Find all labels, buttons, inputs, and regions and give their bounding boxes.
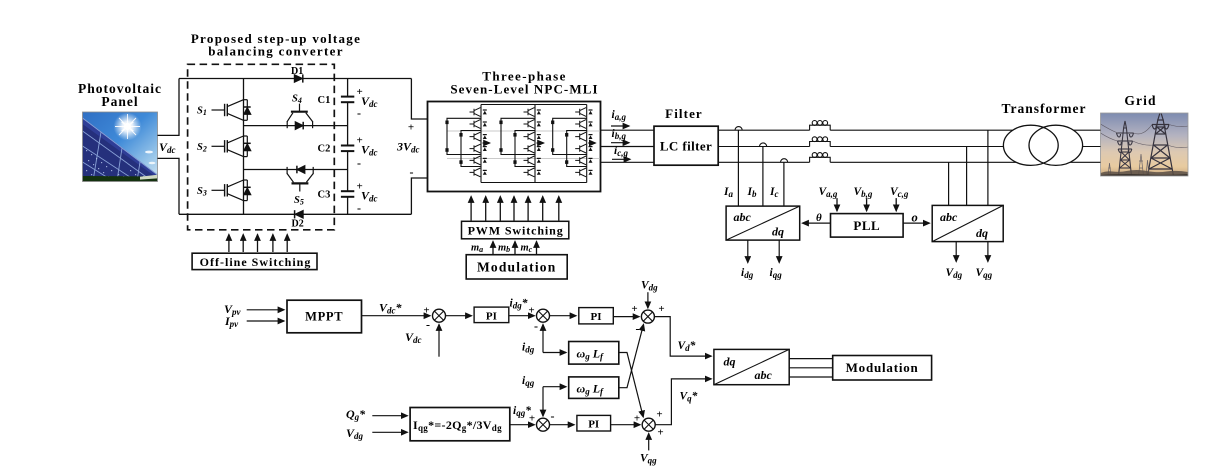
power cables [1101, 124, 1189, 148]
NPC-MLI leg C [551, 105, 595, 183]
svg-text:dq: dq [772, 225, 784, 239]
box abc/dq current [726, 206, 800, 240]
transistor S4 [287, 104, 312, 130]
svg-text:+: + [634, 413, 640, 425]
svg-text:-: - [357, 156, 361, 170]
arrow ic,g [612, 158, 630, 160]
wire top bus [179, 78, 411, 80]
svg-text:+: + [528, 305, 534, 317]
wire PV to converter (bottom) [158, 158, 180, 214]
NPC internal light bus lines [447, 130, 600, 132]
wire sum3 to Vd* to dq box [654, 317, 711, 357]
svg-text:PWM Switching: PWM Switching [468, 224, 564, 238]
wire idg tee [543, 352, 566, 354]
inductor phase b [810, 137, 831, 147]
capacitor C2 [341, 146, 354, 152]
svg-text:o: o [912, 211, 918, 225]
right tower [1148, 114, 1174, 177]
svg-text:+: + [656, 409, 662, 421]
svg-text:dq: dq [724, 355, 736, 369]
svg-text:ma: ma [471, 243, 483, 255]
svg-text:MPPT: MPPT [305, 310, 343, 324]
svg-text:S4: S4 [292, 94, 302, 106]
svg-text:Modulation: Modulation [846, 360, 919, 375]
box wL2 [569, 377, 619, 399]
photo border [83, 112, 158, 182]
summing junction sum2 [537, 309, 550, 322]
summing junction sum3 [641, 310, 654, 323]
box PI1 [474, 307, 509, 323]
NPC-MLI leg A [445, 105, 489, 183]
transformer [1003, 125, 1058, 165]
box PWM Switching [462, 221, 569, 239]
current sensor hump a [735, 127, 742, 131]
arrow Vqg into sum4 [648, 434, 650, 451]
svg-text:Grid: Grid [1124, 93, 1156, 108]
svg-text:+: + [529, 413, 535, 425]
box PI2 [579, 308, 614, 324]
svg-text:S3: S3 [197, 186, 207, 198]
wire capacitor rail [347, 79, 349, 215]
wire sum4 to Vq* to dq box [655, 379, 712, 425]
wire MPPT to sum1 [362, 315, 431, 317]
box LC filter [654, 126, 718, 165]
box Off-line Switching [192, 253, 317, 269]
arrow ia,g [611, 125, 629, 127]
svg-text:+: + [657, 427, 663, 439]
tap Ic [783, 162, 785, 206]
three-phase line c [718, 161, 1100, 163]
NPC internal bottom bus [481, 182, 587, 184]
wire PI2 to sum3 [613, 316, 639, 318]
svg-text:D1: D1 [291, 66, 303, 77]
svg-text:mc: mc [521, 243, 533, 255]
current sensor hump b [760, 143, 767, 147]
NPC internal top bus [481, 104, 587, 106]
svg-text:+: + [658, 303, 664, 315]
transistor S3 [212, 180, 251, 201]
cross wire wL1 to sum4 [619, 353, 643, 417]
svg-text:mb: mb [498, 243, 510, 255]
svg-text:-: - [357, 106, 361, 120]
cross wire wL2 to sum3 [619, 325, 644, 388]
box abc/dq voltage [932, 205, 1003, 241]
distant towers [1108, 154, 1149, 176]
box NPC-MLI [428, 102, 601, 192]
arrows into formula box [372, 415, 407, 417]
three-phase line a [718, 129, 1100, 131]
svg-text:Transformer: Transformer [1002, 101, 1087, 116]
svg-text:C3: C3 [318, 190, 331, 201]
inductor phase a [810, 121, 831, 131]
box MPPT [287, 300, 362, 333]
wire sum5 to PI3 [549, 424, 574, 426]
arrow iqg out [778, 240, 780, 262]
svg-text:Filter: Filter [665, 106, 703, 121]
current sensor hump c [781, 159, 788, 163]
svg-text:-: - [410, 165, 414, 179]
arrow Vdg out [955, 242, 957, 262]
three wires dq/abc to modulation [789, 358, 833, 360]
NPC-MLI leg B [499, 105, 543, 183]
three-phase line b [718, 146, 1100, 148]
svg-text:balancing converter: balancing converter [208, 44, 344, 59]
arrow ib,g [611, 142, 629, 144]
wire PI3 to sum4 [611, 424, 640, 426]
box PI3 [577, 415, 611, 431]
wire bottom bus [179, 213, 411, 215]
summing junction sum5 [537, 418, 550, 431]
svg-text:Modulation: Modulation [477, 260, 557, 275]
svg-text:-: - [357, 201, 361, 215]
transistor S1 [212, 100, 251, 121]
wire sum2 to PI2 [549, 315, 576, 317]
diode D2 [295, 210, 304, 218]
capacitor C3 [341, 191, 354, 197]
wire sum1 to PI1 [445, 315, 472, 317]
svg-text:S2: S2 [197, 142, 207, 154]
arrow idg into sum2 [542, 325, 544, 353]
tap Ib [762, 147, 764, 207]
wire junction S2-S3 to C2-C3 [244, 169, 348, 171]
svg-text:-: - [551, 409, 555, 423]
ground silhouette [1101, 170, 1189, 176]
svg-text:+: + [631, 303, 637, 315]
wire PV to converter (top) [158, 79, 180, 136]
svg-text:θ: θ [816, 212, 822, 224]
box wL1 [569, 342, 619, 365]
wire switch chain vertical [243, 79, 245, 215]
arrow Vdg into sum3 [647, 292, 649, 308]
wires arrows off-line to converter [229, 235, 287, 253]
svg-text:-: - [636, 322, 640, 336]
wires arrows PWM to NPC [471, 197, 559, 221]
box Iqg formula [410, 408, 510, 441]
svg-text:Seven-Level NPC-MLI: Seven-Level NPC-MLI [450, 82, 598, 97]
svg-text:abc: abc [940, 210, 958, 224]
svg-text:LC filter: LC filter [660, 139, 712, 154]
svg-text:abc: abc [734, 210, 752, 224]
transistor S2 [212, 136, 251, 157]
svg-text:+: + [408, 122, 414, 134]
arrow idg out [747, 240, 749, 262]
summing junction sum1 [433, 309, 446, 322]
svg-text:PLL: PLL [853, 218, 880, 233]
arrow Vqg out [987, 242, 989, 262]
box dq/abc [714, 349, 789, 384]
svg-text:abc: abc [755, 368, 773, 382]
svg-text:PI: PI [486, 310, 497, 322]
grid photo border [1101, 113, 1189, 176]
dashed converter box [188, 64, 335, 230]
svg-text:-: - [426, 318, 430, 332]
svg-text:PI: PI [591, 311, 602, 323]
taps to grid-side abc/dq [948, 162, 950, 205]
box PLL [831, 214, 904, 238]
svg-text:Off-line Switching: Off-line Switching [200, 255, 312, 269]
wire PI1 to sum2 [509, 315, 535, 317]
svg-text:Panel: Panel [101, 94, 138, 109]
arrow O [903, 222, 929, 224]
wire formula to sum5 [510, 424, 535, 426]
summing junction sum4 [642, 418, 655, 431]
wires NPC to LC filter [601, 129, 655, 131]
svg-text:-: - [534, 319, 538, 333]
wire junction S1-S2 to C1-C2 [244, 125, 348, 127]
svg-text:S1: S1 [197, 106, 207, 118]
wire iqg tee [543, 386, 566, 388]
box Modulation control [833, 356, 932, 381]
svg-text:C1: C1 [318, 95, 331, 106]
svg-text:C2: C2 [318, 144, 331, 155]
svg-text:PI: PI [588, 419, 599, 431]
transistor S5 [287, 166, 313, 192]
svg-text:ωg Lf: ωg Lf [577, 382, 605, 397]
diode D1 [294, 74, 303, 82]
svg-text:S5: S5 [294, 195, 304, 207]
arrows into PLL [837, 198, 896, 211]
box Modulation (inverter) [466, 255, 567, 279]
svg-text:+: + [423, 305, 429, 317]
svg-text:dq: dq [976, 226, 988, 240]
wire converter output top [411, 79, 427, 120]
tap Ia [737, 130, 739, 206]
wire converter output bottom [411, 178, 427, 214]
arrow theta [803, 222, 831, 224]
arrow iqg down to sum5 [542, 387, 544, 416]
inductor phase c [810, 153, 831, 163]
arrow Vdc into sum1 [438, 325, 440, 357]
wires arrows modulation to PWM [493, 242, 537, 255]
svg-text:ωg Lf: ωg Lf [577, 347, 605, 362]
left tower [1117, 121, 1134, 176]
capacitor C1 [341, 97, 354, 103]
svg-text:D2: D2 [292, 219, 304, 230]
arrows into MPPT [247, 309, 284, 311]
